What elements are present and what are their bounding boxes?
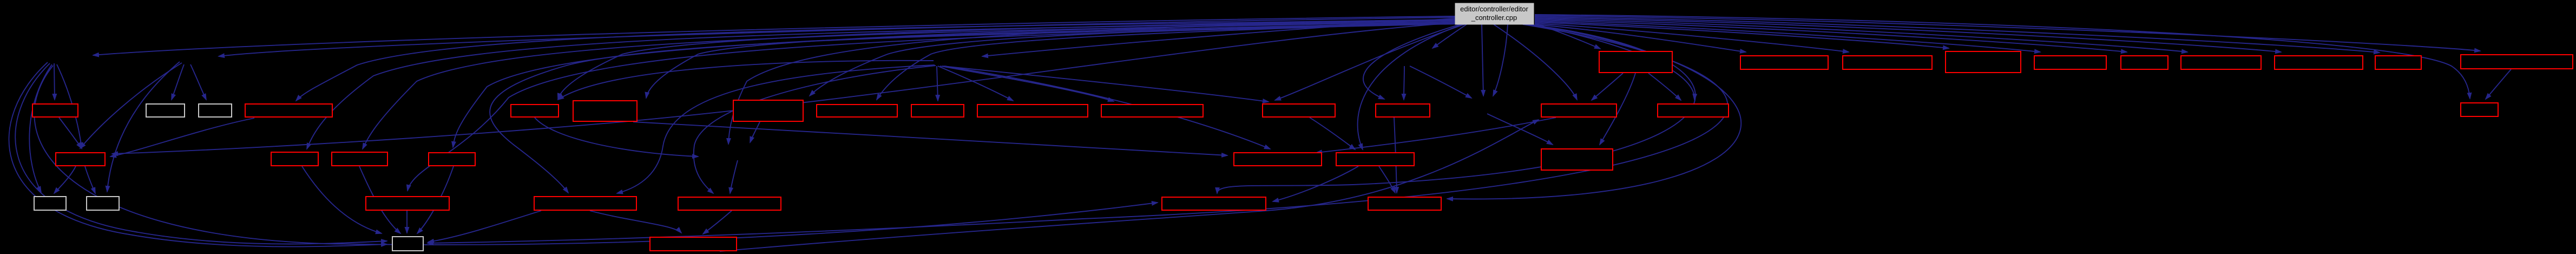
edge root->IN6(right) [1493,24,1508,96]
edge IN4->IN6 [1410,66,1471,98]
edge IN2->R3j [938,66,1013,101]
edge R3m->R5g [1394,118,1397,193]
node R3o [1658,104,1729,117]
node R4c [332,152,387,166]
edge R5c->R6a [406,211,408,233]
edge root->R4c [363,22,1455,149]
edge IN1->R6a(long1) [15,63,387,244]
edge R3l->R4f [1310,118,1355,149]
node R2c [1843,56,1932,69]
edge root->R5d(arc) [490,23,1455,193]
edge root->R2a [1535,23,1600,49]
edge IN2->R4e(top) [944,66,1270,149]
edge IN3->R3b [172,64,184,100]
node R3h [817,105,897,117]
edge IN2->R5d(arc) [617,65,935,193]
edge root->R2h [1535,18,2281,52]
node R3k [1101,105,1203,117]
edge IN1->R6a(long2) [9,62,387,246]
node R3b [146,104,185,117]
edge root->R4f(curve) [1358,24,1462,149]
edge root->R2f [1535,20,2127,52]
edge IN2->R3e(left) [558,61,934,100]
edge R2a->R3n [1592,73,1623,100]
node R2d [1946,51,2021,73]
edge IN6->R4g [1487,114,1553,145]
edge root->R2i [1535,17,2380,53]
node R2f [2121,56,2168,69]
node R5c [366,197,449,210]
node R5a [34,197,66,210]
edge root->R3m(curve) [1363,24,1460,99]
edge R5e->R6b [703,211,732,234]
edge IN3->R3c [190,64,206,100]
node R2j [2461,55,2573,69]
node R4e [1234,153,1322,166]
edge R3g->IN5 [750,122,760,142]
edge root->R3n [1494,24,1577,100]
edge root->R3h [877,23,1455,100]
node R5d [534,197,636,210]
node R5f [1162,197,1266,210]
node R3j [977,105,1088,117]
svg-text:editor/controller/editor: editor/controller/editor [1460,5,1528,13]
edge R2a->R3o [1648,73,1681,100]
edge root->R3e [558,19,1455,99]
edge root->R4b [307,21,1455,149]
edge root->IN4 [1432,24,1467,48]
node R5g [1368,197,1441,210]
node R3n [1541,104,1616,117]
node R2h [2275,56,2363,69]
edge root->R3f [646,21,1455,98]
edge R4a->R5a [54,166,76,193]
edge R5d->R6a(right) [428,211,541,242]
edge IN1->R4a [57,64,82,148]
edge R3d->R4a [110,118,254,157]
node R6b [650,237,737,251]
edge IN2->R5e(arc) [694,66,936,193]
edge root->R2j [1535,16,2480,51]
node R4f [1336,153,1414,166]
edge lineB->R3n [720,120,1539,251]
edge root->R5f(top) [1217,24,1696,193]
edge IN5->R5e [730,160,738,193]
node R3p [2461,103,2498,116]
node R4a [56,153,105,166]
edge root->IN5 [728,20,1455,144]
node R3l [1263,104,1335,117]
edge IN3->R4a(left) [80,63,182,148]
edge IN4->R3m [1404,66,1404,100]
edge root->IN6(mid) [1482,24,1483,96]
node R3c [199,104,232,117]
edge R3f->R4e [633,122,1227,155]
edge R3a->R4a [59,118,82,148]
edge R4b->R6a [302,166,382,233]
edge R5d->R6b [590,211,681,233]
node R3i [911,105,964,117]
edge R4d->R6a [417,166,454,233]
edge root->R6a(long) [428,24,1727,243]
edge R4c->R6a [359,166,400,233]
edge R3e->IN5(left) [535,118,698,157]
edge root->R5c [408,24,1458,191]
edge root->R2d [1535,22,1949,48]
node R2b [1740,56,1828,69]
edge root->R3l [1275,24,1464,100]
edge IN1->R3a [54,63,55,100]
svg-text:_controller.cpp: _controller.cpp [1471,14,1517,22]
node R4d [429,153,475,166]
node R4b [271,152,318,166]
node R3e [511,105,558,117]
node R3a [32,104,78,117]
node R4g [1541,149,1613,170]
node R3g [733,100,803,121]
edge R2a->R4g [1600,73,1635,145]
edge IN3->R5b(long) [107,62,180,192]
edge root->R2e [1535,21,2040,52]
edge IN1->R5f(long) [34,66,1158,245]
node R2a [1599,51,1672,73]
edge root->R4a(1) [112,23,1455,154]
node R2i [2375,56,2421,69]
node root editor/controller/editor_controller.cpp [1455,3,1534,24]
edge IN2->R3i [937,66,938,101]
edge IN2->R3k [940,66,1114,101]
edge root->R3d [296,19,1455,101]
edge root->R3p [1535,15,2470,99]
node R2e [2034,56,2106,69]
node R3m [1376,104,1430,117]
edge root->R5g(sweep) [1447,24,1741,199]
edge R3n->R4e(left) [1316,118,1556,153]
edge root->R2b [1535,24,1746,52]
node R5b [87,197,119,210]
node R3f [573,101,637,121]
edge root->R2g [1535,19,2187,52]
edge R4a->R5b [85,166,95,193]
edge root->IN2 [982,18,1455,56]
edge root->IN3 [219,17,1455,56]
edge root->R4d [453,23,1457,147]
node R2g [2181,56,2261,69]
edge R4f->R5f [1273,166,1358,201]
node R3d [245,104,332,117]
edge R4f->R5g [1379,166,1395,193]
edge root->IN1 [93,16,1455,55]
edge IN2->R3l [942,66,1269,102]
node R6a [392,237,423,251]
edge IN1->R5a [29,64,52,192]
edge root->R3o [1532,24,1694,100]
edge R2j->R3p [2486,69,2511,99]
edge root->R3g [810,22,1455,96]
node R5e [678,197,781,210]
edge root->R2c [1535,23,1849,52]
